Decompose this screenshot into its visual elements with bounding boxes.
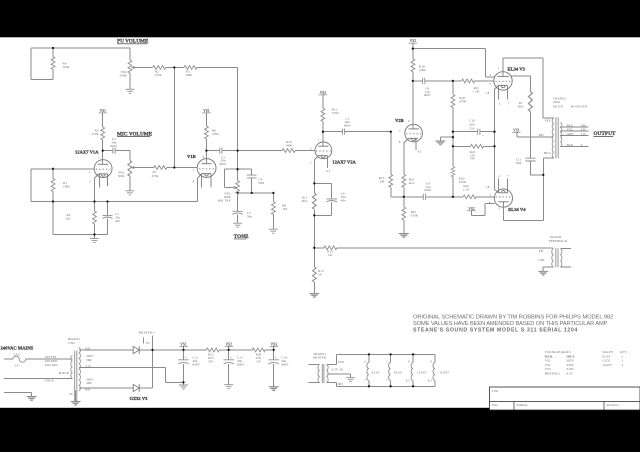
svg-text:1A: 1A bbox=[15, 364, 20, 368]
svg-text:GZ32 V3: GZ32 V3 bbox=[130, 396, 149, 401]
svg-text:+: + bbox=[275, 355, 277, 359]
svg-text:VS1: VS1 bbox=[99, 109, 106, 113]
svg-text:V1B: V1B bbox=[187, 154, 196, 159]
svg-text:ORIGINAL SCHEMATIC DRAWN BY TI: ORIGINAL SCHEMATIC DRAWN BY TIM ROBBINS … bbox=[413, 314, 614, 320]
svg-text:100K: 100K bbox=[285, 143, 293, 147]
svg-text:+: + bbox=[230, 355, 232, 359]
svg-text:RD: RD bbox=[85, 347, 90, 351]
svg-text:1.5K: 1.5K bbox=[473, 90, 480, 94]
svg-text:YEL: YEL bbox=[544, 118, 551, 122]
svg-text:56: 56 bbox=[318, 273, 322, 277]
svg-text:170G: 170G bbox=[67, 341, 75, 345]
svg-text:6.3V 3A: 6.3V 3A bbox=[332, 367, 344, 371]
svg-text:240VAC MAINS: 240VAC MAINS bbox=[1, 346, 34, 351]
svg-text:VS3: VS3 bbox=[545, 367, 551, 371]
svg-text:STEANE'S SOUND SYSTEM MODEL S: STEANE'S SOUND SYSTEM MODEL S 311 SERIAL… bbox=[413, 327, 578, 333]
svg-text:470k: 470k bbox=[155, 73, 162, 77]
svg-text:40v: 40v bbox=[115, 219, 120, 223]
svg-text:150K: 150K bbox=[411, 214, 419, 218]
svg-text:50n: 50n bbox=[247, 214, 252, 218]
svg-text:100k: 100k bbox=[63, 185, 70, 189]
svg-text:B DCR: B DCR bbox=[59, 371, 70, 375]
svg-text:12AX7: 12AX7 bbox=[439, 370, 449, 374]
svg-text:EL34: EL34 bbox=[394, 370, 402, 374]
svg-text:SOME VALUES HAVE BEEN AMENDED: SOME VALUES HAVE BEEN AMENDED BASED ON T… bbox=[413, 321, 608, 327]
svg-text:600v: 600v bbox=[344, 123, 351, 127]
svg-text:VS1: VS1 bbox=[203, 109, 210, 113]
svg-text:5V: 5V bbox=[146, 341, 151, 345]
svg-text:YEL: YEL bbox=[567, 128, 574, 132]
svg-text:EL34 V3: EL34 V3 bbox=[508, 67, 526, 72]
svg-text:BLU: BLU bbox=[567, 123, 574, 127]
svg-text:Number: Number bbox=[517, 403, 529, 407]
svg-text:1.5K: 1.5K bbox=[463, 187, 470, 191]
svg-text:VS2: VS2 bbox=[320, 91, 327, 95]
svg-text:40+40 DCR: 40+40 DCR bbox=[571, 104, 588, 108]
svg-text:600v: 600v bbox=[425, 188, 432, 192]
svg-text:BLK: BLK bbox=[567, 143, 574, 147]
svg-text:600v: 600v bbox=[110, 144, 117, 148]
svg-text:Size: Size bbox=[492, 403, 498, 407]
svg-text:+: + bbox=[482, 134, 484, 138]
svg-text:Revision: Revision bbox=[607, 403, 619, 407]
svg-text:500K: 500K bbox=[119, 74, 127, 78]
svg-text:RD: RD bbox=[539, 133, 544, 137]
svg-text:FB: FB bbox=[539, 249, 544, 253]
svg-text:36R: 36R bbox=[86, 358, 92, 362]
svg-text:0: 0 bbox=[581, 143, 583, 147]
svg-text:6K P-P: 6K P-P bbox=[553, 104, 563, 108]
svg-text:12AX7: 12AX7 bbox=[417, 370, 427, 374]
svg-text:Title: Title bbox=[492, 389, 499, 393]
svg-text:6.3V: 6.3V bbox=[566, 372, 573, 376]
svg-text:QTY: QTY bbox=[620, 350, 628, 354]
svg-text:VOLTAGE RAILS: VOLTAGE RAILS bbox=[545, 350, 571, 354]
svg-text:500: 500 bbox=[581, 123, 586, 127]
svg-text:3AG: 3AG bbox=[14, 353, 21, 357]
svg-text:2k2: 2k2 bbox=[65, 216, 70, 220]
svg-text:5K6: 5K6 bbox=[517, 105, 523, 109]
svg-text:1K: 1K bbox=[328, 253, 333, 257]
svg-text:1M: 1M bbox=[282, 207, 287, 211]
svg-text:12AX7: 12AX7 bbox=[602, 363, 612, 367]
svg-text:5W: 5W bbox=[208, 360, 214, 364]
svg-text:25v: 25v bbox=[470, 127, 475, 131]
svg-text:1W: 1W bbox=[256, 360, 262, 364]
svg-text:HEATER-1: HEATER-1 bbox=[545, 372, 561, 376]
svg-text:100k: 100k bbox=[63, 65, 70, 69]
svg-text:+: + bbox=[185, 355, 187, 359]
svg-text:GRN: GRN bbox=[567, 132, 575, 136]
svg-text:600V: 600V bbox=[237, 363, 245, 367]
svg-text:FEEDBACK: FEEDBACK bbox=[549, 239, 568, 243]
svg-text:270k: 270k bbox=[332, 111, 339, 115]
svg-text:12AX7 V2A: 12AX7 V2A bbox=[332, 160, 356, 165]
svg-text:2: 2 bbox=[622, 363, 624, 367]
svg-text:VS1: VS1 bbox=[180, 342, 187, 346]
svg-text:600V: 600V bbox=[281, 363, 289, 367]
svg-text:100k: 100k bbox=[419, 68, 426, 72]
svg-text:RD: RD bbox=[85, 388, 90, 392]
svg-text:270k: 270k bbox=[92, 132, 99, 136]
svg-text:YEL: YEL bbox=[85, 364, 92, 368]
svg-text:S6: S6 bbox=[69, 392, 73, 396]
svg-text:1.9R: 1.9R bbox=[538, 258, 545, 262]
svg-text:5N6: 5N6 bbox=[258, 181, 264, 185]
svg-text:0 BLK: 0 BLK bbox=[45, 379, 55, 383]
svg-text:2M: 2M bbox=[380, 180, 385, 184]
svg-text:2M0: 2M0 bbox=[186, 73, 193, 77]
svg-text:500k: 500k bbox=[118, 174, 125, 178]
svg-text:EL34 V4: EL34 V4 bbox=[508, 207, 526, 212]
svg-text:6V8: 6V8 bbox=[338, 360, 344, 364]
svg-text:470K: 470K bbox=[459, 99, 467, 103]
svg-text:RD: RD bbox=[338, 382, 343, 386]
svg-text:VS2: VS2 bbox=[225, 342, 232, 346]
svg-text:BLU: BLU bbox=[544, 151, 551, 155]
svg-text:VALVE: VALVE bbox=[602, 350, 613, 354]
svg-text:40v: 40v bbox=[341, 199, 346, 203]
svg-text:470k: 470k bbox=[152, 174, 159, 178]
svg-text:250: 250 bbox=[581, 128, 586, 132]
svg-text:V2B: V2B bbox=[395, 118, 404, 123]
svg-text:VS1: VS1 bbox=[513, 128, 520, 132]
svg-text:2K2: 2K2 bbox=[409, 181, 415, 185]
svg-text:316V: 316V bbox=[566, 367, 574, 371]
svg-text:34R: 34R bbox=[86, 381, 92, 385]
svg-text:HEATER-1: HEATER-1 bbox=[139, 330, 155, 334]
svg-text:600v: 600v bbox=[220, 162, 227, 166]
svg-text:8n6: 8n6 bbox=[516, 161, 521, 165]
svg-text:12AX7 V1A: 12AX7 V1A bbox=[75, 150, 99, 155]
svg-text:40K TAP: 40K TAP bbox=[218, 198, 231, 202]
svg-text:600v: 600v bbox=[424, 93, 431, 97]
svg-text:VS2: VS2 bbox=[468, 207, 475, 211]
svg-text:VS2: VS2 bbox=[410, 39, 417, 43]
svg-text:220 GRN: 220 GRN bbox=[45, 363, 59, 367]
svg-text:HEATER: HEATER bbox=[313, 356, 327, 360]
svg-text:5W: 5W bbox=[470, 157, 476, 161]
svg-text:EL34: EL34 bbox=[372, 370, 380, 374]
svg-text:270k: 270k bbox=[212, 132, 219, 136]
svg-text:VS3: VS3 bbox=[270, 342, 277, 346]
svg-text:600V: 600V bbox=[192, 363, 200, 367]
svg-text:2K2: 2K2 bbox=[301, 199, 307, 203]
svg-text:115: 115 bbox=[581, 132, 586, 136]
